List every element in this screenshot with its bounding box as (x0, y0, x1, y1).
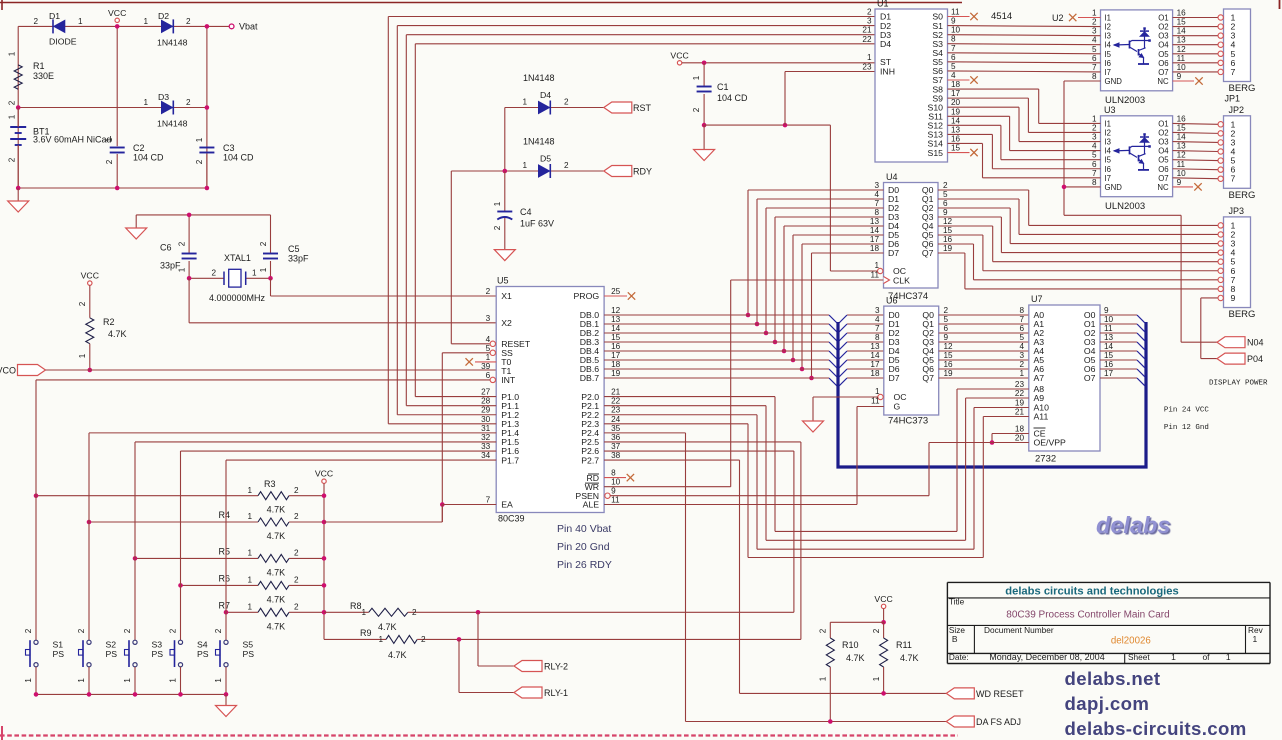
svg-text:17: 17 (951, 89, 961, 98)
svg-text:1: 1 (819, 676, 828, 681)
svg-text:2: 2 (186, 17, 191, 26)
svg-text:RDY: RDY (633, 167, 652, 177)
svg-text:D7: D7 (888, 248, 899, 258)
svg-text:10: 10 (951, 26, 961, 35)
svg-text:INH: INH (880, 67, 895, 77)
svg-text:15: 15 (951, 144, 961, 153)
svg-text:O4: O4 (1158, 41, 1169, 50)
svg-text:6: 6 (951, 53, 956, 62)
svg-text:X1: X1 (501, 291, 512, 301)
svg-text:20: 20 (1015, 434, 1025, 443)
svg-text:1: 1 (1092, 114, 1097, 123)
svg-text:4: 4 (1092, 142, 1097, 151)
svg-text:19: 19 (943, 244, 953, 253)
svg-text:D4: D4 (540, 90, 551, 100)
svg-text:104 CD: 104 CD (717, 93, 748, 103)
svg-text:I2: I2 (1105, 128, 1112, 137)
svg-text:del20026: del20026 (1111, 636, 1151, 647)
svg-text:10: 10 (1177, 169, 1187, 178)
svg-text:Pin 40 Vbat: Pin 40 Vbat (557, 523, 611, 535)
svg-text:U2: U2 (1052, 13, 1064, 23)
svg-text:N04: N04 (1247, 338, 1264, 348)
svg-text:9: 9 (951, 17, 956, 26)
svg-text:Monday, December 08, 2004: Monday, December 08, 2004 (989, 652, 1104, 662)
svg-text:2: 2 (294, 603, 299, 612)
svg-text:I5: I5 (1105, 156, 1112, 165)
svg-text:23: 23 (1015, 380, 1025, 389)
svg-text:D2: D2 (158, 11, 169, 21)
svg-text:R3: R3 (264, 479, 276, 489)
svg-text:O1: O1 (1158, 119, 1168, 128)
svg-text:2: 2 (214, 628, 223, 633)
svg-text:1: 1 (378, 635, 383, 644)
svg-text:I3: I3 (1105, 32, 1112, 41)
svg-text:O3: O3 (1158, 138, 1168, 147)
svg-text:1: 1 (247, 549, 252, 558)
svg-text:3: 3 (867, 17, 872, 26)
svg-text:EA: EA (501, 500, 513, 510)
svg-text:U5: U5 (497, 276, 509, 286)
svg-text:12: 12 (943, 217, 953, 226)
svg-text:22: 22 (611, 397, 621, 406)
svg-text:dapj.com: dapj.com (1065, 693, 1150, 714)
svg-text:2: 2 (195, 159, 204, 164)
svg-text:BERG: BERG (1229, 83, 1256, 94)
svg-text:8: 8 (875, 333, 880, 342)
svg-text:4: 4 (1092, 36, 1097, 45)
svg-text:1: 1 (247, 603, 252, 612)
svg-text:7: 7 (875, 324, 880, 333)
svg-text:R5: R5 (218, 546, 230, 556)
svg-text:14: 14 (611, 324, 621, 333)
svg-text:8: 8 (1019, 306, 1024, 315)
svg-text:4514: 4514 (991, 11, 1012, 22)
svg-text:4: 4 (1019, 342, 1024, 351)
svg-text:1: 1 (259, 267, 268, 272)
svg-text:Date:: Date: (949, 652, 969, 662)
svg-text:11: 11 (1177, 160, 1186, 169)
svg-text:DISPLAY POWER: DISPLAY POWER (1209, 379, 1268, 387)
svg-text:16: 16 (1177, 9, 1187, 18)
svg-text:G: G (894, 402, 901, 412)
svg-text:1uF 63V: 1uF 63V (520, 219, 554, 229)
svg-text:104 CD: 104 CD (133, 153, 164, 163)
svg-text:1N4148: 1N4148 (157, 119, 188, 129)
svg-text:I4: I4 (1105, 41, 1112, 50)
svg-text:4.7K: 4.7K (267, 621, 286, 631)
svg-text:5: 5 (943, 190, 948, 199)
svg-text:23: 23 (611, 406, 621, 415)
svg-text:34: 34 (481, 451, 491, 460)
svg-text:18: 18 (611, 360, 621, 369)
svg-text:I6: I6 (1105, 59, 1112, 68)
svg-text:P04: P04 (1247, 354, 1263, 364)
svg-text:1: 1 (872, 676, 881, 681)
svg-text:1: 1 (247, 486, 252, 495)
svg-text:VCC: VCC (81, 271, 99, 281)
svg-text:PROG: PROG (574, 291, 600, 301)
svg-text:6: 6 (943, 199, 948, 208)
svg-text:2: 2 (105, 159, 114, 164)
svg-text:30: 30 (481, 415, 491, 424)
svg-text:1: 1 (123, 678, 132, 683)
svg-text:ST: ST (880, 57, 892, 67)
svg-text:O2: O2 (1158, 128, 1168, 137)
svg-text:4.7K: 4.7K (378, 622, 397, 632)
svg-text:BERG: BERG (1229, 309, 1256, 320)
svg-text:20: 20 (951, 98, 961, 107)
svg-text:9: 9 (1177, 178, 1182, 187)
svg-text:38: 38 (611, 451, 621, 460)
svg-text:X2: X2 (501, 318, 512, 328)
svg-text:OC: OC (893, 266, 906, 276)
svg-text:6: 6 (1019, 324, 1024, 333)
svg-text:16: 16 (611, 342, 621, 351)
svg-text:S5: S5 (243, 640, 254, 650)
svg-text:S4: S4 (197, 640, 208, 650)
svg-text:D5: D5 (540, 154, 551, 164)
svg-text:16: 16 (943, 235, 953, 244)
svg-text:17: 17 (870, 235, 880, 244)
svg-text:28: 28 (481, 397, 491, 406)
svg-text:S3: S3 (152, 640, 163, 650)
svg-text:1: 1 (252, 269, 257, 278)
svg-text:4.7K: 4.7K (108, 329, 127, 339)
svg-text:O7: O7 (1158, 68, 1168, 77)
svg-text:5: 5 (1019, 333, 1024, 342)
svg-text:1: 1 (78, 353, 87, 358)
svg-text:14: 14 (951, 116, 961, 125)
svg-text:14: 14 (1177, 27, 1187, 36)
svg-text:O6: O6 (1158, 165, 1168, 174)
svg-text:2: 2 (169, 628, 178, 633)
svg-text:2: 2 (178, 241, 187, 246)
svg-text:2: 2 (186, 98, 191, 107)
svg-text:2: 2 (1092, 18, 1097, 27)
svg-text:JP3: JP3 (1229, 206, 1245, 216)
svg-text:3.6V 60mAH NiCad: 3.6V 60mAH NiCad (33, 135, 112, 145)
svg-text:R2: R2 (103, 317, 115, 327)
svg-text:1: 1 (195, 137, 204, 142)
svg-text:D1: D1 (49, 11, 60, 21)
svg-text:1: 1 (1092, 9, 1097, 18)
svg-text:24: 24 (611, 415, 621, 424)
svg-text:14: 14 (1177, 133, 1187, 142)
svg-text:VCC: VCC (670, 50, 688, 60)
svg-text:11: 11 (1177, 54, 1186, 63)
svg-text:1: 1 (867, 53, 872, 62)
svg-text:A7: A7 (1034, 373, 1045, 383)
svg-text:GND: GND (1105, 77, 1123, 86)
svg-text:13: 13 (1177, 36, 1187, 45)
svg-text:I6: I6 (1105, 165, 1112, 174)
svg-text:17: 17 (611, 351, 621, 360)
svg-text:R4: R4 (218, 510, 230, 520)
svg-text:C6: C6 (160, 243, 172, 253)
svg-text:19: 19 (944, 369, 954, 378)
svg-text:C5: C5 (288, 244, 300, 254)
svg-text:2: 2 (944, 306, 949, 315)
svg-text:2: 2 (294, 486, 299, 495)
svg-text:1: 1 (24, 678, 33, 683)
svg-text:2: 2 (77, 628, 86, 633)
svg-text:8: 8 (874, 208, 879, 217)
svg-text:18: 18 (951, 80, 961, 89)
svg-text:3: 3 (486, 314, 491, 323)
svg-text:R10: R10 (842, 640, 859, 650)
svg-text:2: 2 (943, 181, 948, 190)
svg-text:D4: D4 (880, 39, 891, 49)
svg-text:2: 2 (78, 301, 87, 306)
svg-text:O4: O4 (1158, 147, 1169, 156)
svg-text:74HC373: 74HC373 (888, 416, 928, 427)
svg-text:7: 7 (486, 496, 491, 505)
svg-text:1: 1 (247, 512, 252, 521)
svg-text:2: 2 (564, 98, 569, 107)
svg-text:1N4148: 1N4148 (523, 73, 555, 83)
svg-text:22: 22 (862, 35, 872, 44)
svg-text:4: 4 (951, 71, 956, 80)
svg-text:13: 13 (870, 217, 880, 226)
svg-text:15: 15 (611, 333, 621, 342)
svg-text:delabs: delabs (1096, 512, 1170, 538)
svg-text:Q7: Q7 (922, 248, 934, 258)
svg-text:3: 3 (875, 306, 880, 315)
svg-text:14: 14 (870, 351, 880, 360)
svg-text:15: 15 (1177, 18, 1187, 27)
svg-text:I7: I7 (1105, 68, 1112, 77)
svg-text:5: 5 (1092, 45, 1097, 54)
svg-text:delabs.net: delabs.net (1065, 668, 1161, 689)
svg-text:7: 7 (1092, 169, 1097, 178)
svg-text:R7: R7 (218, 600, 230, 610)
svg-text:U6: U6 (886, 296, 898, 306)
svg-text:18: 18 (1015, 425, 1025, 434)
svg-text:17: 17 (870, 360, 880, 369)
svg-text:2: 2 (33, 17, 38, 26)
svg-text:Title: Title (949, 596, 965, 606)
svg-text:VCC: VCC (108, 8, 126, 18)
svg-text:8: 8 (1092, 72, 1097, 81)
svg-text:9: 9 (611, 487, 616, 496)
svg-text:9: 9 (1177, 72, 1182, 81)
svg-text:2: 2 (564, 161, 569, 170)
svg-text:A11: A11 (1034, 412, 1049, 422)
svg-text:16: 16 (1177, 114, 1187, 123)
svg-text:Document Number: Document Number (984, 625, 1054, 635)
svg-text:2: 2 (1019, 360, 1024, 369)
svg-text:R9: R9 (360, 628, 372, 638)
svg-text:7: 7 (874, 199, 879, 208)
svg-text:delabs circuits and technologi: delabs circuits and technologies (1005, 585, 1178, 597)
svg-text:104 CD: 104 CD (223, 153, 254, 163)
svg-text:10: 10 (611, 478, 621, 487)
svg-text:I5: I5 (1105, 50, 1112, 59)
svg-text:7: 7 (951, 44, 956, 53)
svg-text:2: 2 (294, 512, 299, 521)
svg-text:15: 15 (943, 226, 953, 235)
svg-text:2: 2 (412, 608, 417, 617)
svg-text:4.7K: 4.7K (267, 531, 286, 541)
svg-text:D3: D3 (158, 92, 169, 102)
svg-text:R1: R1 (33, 61, 45, 71)
svg-text:C1: C1 (717, 82, 729, 92)
svg-text:D7: D7 (889, 373, 900, 383)
svg-text:PS: PS (243, 649, 255, 659)
svg-text:C3: C3 (223, 143, 235, 153)
svg-text:80C39: 80C39 (498, 514, 525, 524)
svg-text:6: 6 (1092, 160, 1097, 169)
svg-text:2: 2 (123, 628, 132, 633)
svg-text:2: 2 (493, 225, 502, 230)
svg-text:O5: O5 (1158, 50, 1169, 59)
svg-text:1: 1 (8, 51, 17, 56)
svg-text:8: 8 (611, 469, 616, 478)
svg-text:2: 2 (24, 628, 33, 633)
svg-text:330E: 330E (33, 71, 54, 81)
svg-text:7: 7 (1019, 315, 1024, 324)
svg-text:1: 1 (77, 678, 86, 683)
svg-text:NC: NC (1157, 77, 1169, 86)
svg-text:2: 2 (8, 157, 17, 162)
svg-text:12: 12 (611, 306, 621, 315)
svg-text:1: 1 (1226, 652, 1231, 662)
svg-text:PS: PS (197, 649, 209, 659)
svg-text:23: 23 (862, 63, 872, 72)
svg-text:2: 2 (1092, 123, 1097, 132)
svg-text:A9: A9 (1034, 393, 1045, 403)
svg-text:11: 11 (611, 496, 620, 505)
svg-text:4: 4 (874, 190, 879, 199)
svg-text:VCC: VCC (874, 594, 892, 604)
svg-text:NC: NC (1157, 183, 1169, 192)
svg-text:1: 1 (143, 17, 148, 26)
svg-text:2: 2 (259, 241, 268, 246)
svg-text:13: 13 (1104, 333, 1114, 342)
svg-text:I3: I3 (1105, 138, 1112, 147)
svg-text:P1.7: P1.7 (501, 455, 519, 465)
svg-text:WD RESET: WD RESET (976, 689, 1024, 699)
svg-text:I4: I4 (1105, 147, 1112, 156)
svg-text:Pin 26 RDY: Pin 26 RDY (557, 559, 612, 571)
svg-text:9: 9 (943, 208, 948, 217)
svg-text:12: 12 (1177, 45, 1187, 54)
svg-text:S1: S1 (53, 640, 64, 650)
svg-text:R11: R11 (896, 640, 912, 650)
svg-text:Vbat: Vbat (239, 22, 258, 32)
svg-text:10: 10 (1104, 315, 1114, 324)
svg-text:9: 9 (1104, 306, 1109, 315)
svg-text:11: 11 (1104, 324, 1113, 333)
svg-text:I2: I2 (1105, 23, 1112, 32)
svg-text:80C39 Process Controller Main: 80C39 Process Controller Main Card (1006, 610, 1169, 621)
svg-text:15: 15 (944, 351, 954, 360)
svg-text:11: 11 (871, 271, 880, 280)
svg-text:33pF: 33pF (288, 254, 309, 264)
svg-text:U7: U7 (1031, 294, 1043, 304)
svg-text:14: 14 (870, 226, 880, 235)
svg-text:15: 15 (1104, 351, 1114, 360)
svg-text:BERG: BERG (1229, 190, 1256, 201)
svg-text:33: 33 (481, 442, 491, 451)
svg-text:C4: C4 (520, 207, 532, 217)
svg-text:1N4148: 1N4148 (157, 38, 188, 48)
svg-text:2: 2 (294, 576, 299, 585)
svg-text:2732: 2732 (1035, 454, 1056, 465)
svg-text:ALE: ALE (583, 500, 600, 510)
svg-text:4.7K: 4.7K (267, 505, 286, 515)
svg-text:of: of (1202, 652, 1210, 662)
svg-text:15: 15 (1177, 123, 1187, 132)
svg-text:16: 16 (951, 134, 961, 143)
svg-text:1: 1 (1253, 634, 1258, 644)
svg-text:36: 36 (611, 433, 621, 442)
svg-text:I1: I1 (1105, 119, 1112, 128)
svg-text:21: 21 (611, 388, 621, 397)
svg-text:4.7K: 4.7K (900, 653, 919, 663)
svg-text:11: 11 (871, 397, 880, 406)
svg-text:5: 5 (944, 315, 949, 324)
svg-text:3: 3 (1092, 27, 1097, 36)
svg-text:3: 3 (1092, 133, 1097, 142)
svg-text:PS: PS (106, 649, 118, 659)
svg-text:CLK: CLK (893, 276, 910, 286)
svg-text:2: 2 (421, 635, 426, 644)
svg-text:1: 1 (78, 17, 83, 26)
svg-text:25: 25 (611, 287, 621, 296)
svg-text:S2: S2 (106, 640, 117, 650)
svg-text:7: 7 (1231, 174, 1236, 184)
svg-text:PS: PS (152, 649, 164, 659)
svg-text:1: 1 (692, 75, 701, 80)
svg-text:2: 2 (819, 628, 828, 633)
svg-text:RLY-1: RLY-1 (544, 688, 568, 698)
svg-text:ULN2003: ULN2003 (1105, 201, 1145, 212)
svg-text:7: 7 (1092, 63, 1097, 72)
svg-text:33pF: 33pF (160, 261, 181, 271)
svg-text:OE/VPP: OE/VPP (1034, 438, 1067, 448)
svg-text:9: 9 (944, 333, 949, 342)
svg-text:O7: O7 (1084, 373, 1096, 383)
svg-text:O7: O7 (1158, 174, 1168, 183)
svg-text:14: 14 (1104, 342, 1114, 351)
svg-text:Q7: Q7 (922, 373, 934, 383)
svg-text:O5: O5 (1158, 156, 1169, 165)
svg-text:17: 17 (1104, 369, 1114, 378)
svg-text:B: B (952, 634, 958, 644)
svg-text:Pin 24 VCC: Pin 24 VCC (1164, 407, 1210, 415)
svg-text:2: 2 (294, 549, 299, 558)
svg-text:I1: I1 (1105, 14, 1112, 23)
svg-text:8: 8 (1092, 178, 1097, 187)
svg-text:1: 1 (8, 114, 17, 119)
svg-text:OC: OC (894, 392, 907, 402)
svg-text:39: 39 (481, 362, 491, 371)
svg-text:U4: U4 (886, 172, 898, 182)
svg-text:18: 18 (870, 369, 880, 378)
svg-text:19: 19 (611, 369, 621, 378)
svg-text:O2: O2 (1158, 23, 1168, 32)
svg-text:XTAL1: XTAL1 (224, 253, 251, 263)
svg-text:INT: INT (501, 375, 516, 385)
svg-text:DIODE: DIODE (49, 37, 77, 47)
svg-text:Pin 12 Gnd: Pin 12 Gnd (1164, 424, 1209, 432)
svg-text:37: 37 (611, 442, 621, 451)
svg-text:1: 1 (522, 161, 527, 170)
svg-text:4.000000MHz: 4.000000MHz (209, 293, 266, 303)
svg-text:6: 6 (1092, 54, 1097, 63)
svg-text:1: 1 (214, 678, 223, 683)
